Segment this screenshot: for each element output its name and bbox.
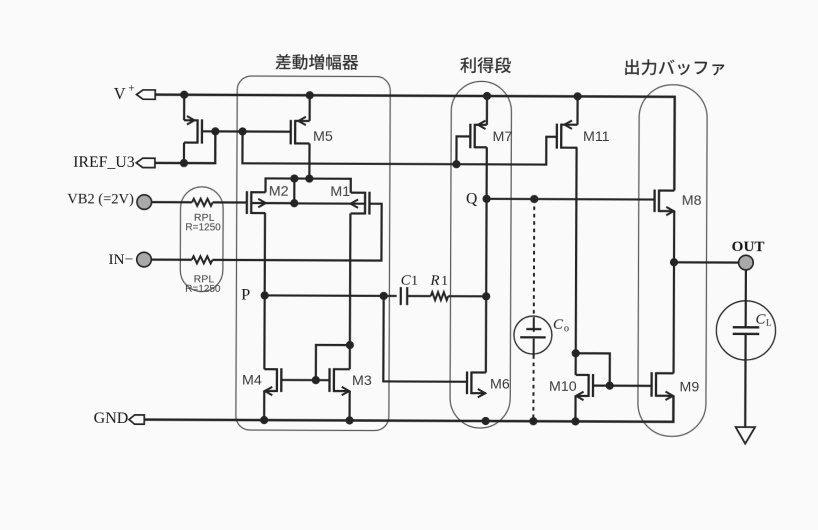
wire M7 gate route <box>456 136 470 164</box>
node Q junction <box>482 195 490 203</box>
junction node P / M6 gate / C1 <box>380 292 388 300</box>
label RPL/R=1250 (VB2) <box>185 213 221 234</box>
transistor M9 <box>652 372 674 400</box>
group box: output buffer stage <box>638 85 707 437</box>
wire OUT node line <box>674 261 738 263</box>
label C1 <box>401 272 418 288</box>
node P junction <box>261 291 269 299</box>
wire M10/M9 gate line <box>593 384 652 386</box>
svg-text:V: V <box>114 84 126 103</box>
wire Q vertical M7-M6 <box>485 147 488 372</box>
svg-text:GND: GND <box>94 410 129 427</box>
svg-text:M4: M4 <box>242 373 262 389</box>
label RPL/R=1250 (IN-) <box>185 274 221 294</box>
wire mirror gate node A to M5 <box>215 130 290 133</box>
transistor M7 <box>470 121 487 149</box>
junction M1-M2 bulk line <box>290 199 298 207</box>
svg-text:R: R <box>429 273 439 289</box>
wire R1 to Q vertical <box>448 295 486 297</box>
group box: differential amplifier stage <box>236 76 390 431</box>
wire node P to C1 <box>265 294 397 297</box>
svg-text:1: 1 <box>411 273 418 288</box>
label M6 <box>490 377 510 393</box>
svg-text:C: C <box>401 272 411 288</box>
svg-text:M9: M9 <box>679 379 699 395</box>
svg-text:IREF_U3: IREF_U3 <box>73 154 135 171</box>
terminal IN- <box>108 251 151 268</box>
junction V+ rail / M5 source <box>306 91 314 99</box>
wire M4 source drop <box>263 391 265 420</box>
wire M7 source drop <box>486 96 488 125</box>
svg-text:C: C <box>553 317 563 333</box>
svg-text:M10: M10 <box>549 379 577 395</box>
label M9 <box>679 379 699 395</box>
svg-text:Q: Q <box>466 190 477 207</box>
label CL <box>756 311 772 327</box>
terminal V+ <box>114 82 156 103</box>
label M3 <box>352 373 372 389</box>
junction GND / M3 source <box>345 416 353 424</box>
transistor M5 <box>291 117 310 145</box>
wire M5 source drop <box>309 95 311 121</box>
wire M3 source drop <box>348 391 350 420</box>
wire Mb drain drop <box>183 143 185 164</box>
wire M5 drain drop <box>308 143 310 178</box>
label: output buffer (kanji) <box>625 59 724 75</box>
svg-text:M11: M11 <box>583 129 610 145</box>
junction V+ rail / M11 source <box>573 92 581 100</box>
capacitor Co (node Q, dashed) <box>514 316 552 354</box>
svg-text:M5: M5 <box>313 129 333 145</box>
transistor M1 <box>294 191 369 214</box>
wire M8 source to OUT node <box>673 211 675 262</box>
junction M10-M9 gate line <box>606 382 614 390</box>
node Q label <box>466 190 477 207</box>
transistor M2 <box>247 191 294 214</box>
wire M4/M3 gate line <box>282 379 330 381</box>
svg-text:M6: M6 <box>490 377 510 393</box>
label M5 <box>313 129 333 145</box>
transistor Mb (IREF diode-connected PMOS) <box>184 116 202 144</box>
wire OUT node to M9 drain <box>672 262 675 373</box>
svg-text:M7: M7 <box>493 129 513 145</box>
wire RPL to M2 gate <box>213 201 247 203</box>
resistor RPL (IN-) <box>192 256 213 263</box>
junction source rail / M5 drain <box>305 174 313 182</box>
svg-text:R=1250: R=1250 <box>185 284 221 295</box>
wire bulk tie riser <box>293 179 295 204</box>
svg-text:1: 1 <box>441 273 448 288</box>
junction M3-M4 gate line <box>312 376 320 384</box>
svg-text:M1: M1 <box>330 184 350 200</box>
svg-text:M8: M8 <box>682 193 702 209</box>
wire M1/M2 common source rail <box>266 178 351 192</box>
wire GND rail to M9 source <box>144 394 674 422</box>
wire OUT terminal drop upper <box>745 270 747 328</box>
svg-text:P: P <box>241 285 250 304</box>
junction GND / Co return <box>529 417 537 425</box>
label M7 <box>493 129 513 145</box>
ground (CL return) <box>736 427 755 444</box>
svg-text:M3: M3 <box>352 373 372 389</box>
junction mirror gate rail / M7 gate <box>452 160 460 168</box>
label M1 <box>330 184 350 200</box>
wire IN- lead <box>152 259 192 261</box>
junction M10 drain / diode tie <box>572 349 580 357</box>
svg-text:L: L <box>766 317 772 327</box>
wire M11 source drop <box>576 96 578 124</box>
transistor M8 <box>655 190 675 216</box>
wire C1 to R1 <box>407 295 431 297</box>
junction IREF_U3 / Mb drain <box>180 159 188 167</box>
label: gain stage (kanji) <box>460 57 511 73</box>
capacitor CL (load) <box>716 301 775 360</box>
terminal OUT <box>731 238 764 270</box>
junction mirror gate rail / M5 gate <box>238 127 246 135</box>
junction V+ rail / M7 source <box>483 92 491 100</box>
group box: gain stage <box>450 81 512 428</box>
wire Mb source drop <box>183 95 185 120</box>
resistor R1 <box>431 292 448 300</box>
junction GND / M10 source <box>571 417 579 425</box>
junction GND / M4 source <box>260 416 268 424</box>
terminal VB2 <box>67 191 151 209</box>
wire CL bottom to ground <box>744 334 747 427</box>
transistor M11 <box>557 120 578 148</box>
wire M11 drain vertical <box>575 148 578 375</box>
wire VB2 lead <box>152 201 192 203</box>
svg-text:OUT: OUT <box>732 238 765 255</box>
node OUT junction <box>670 258 678 266</box>
wire M1 drain / M3 drain vertical <box>349 213 352 369</box>
node P label <box>241 285 250 304</box>
label M8 <box>682 193 702 209</box>
svg-text:M2: M2 <box>269 183 289 199</box>
resistor RPL (VB2) <box>192 199 213 206</box>
svg-text:IN−: IN− <box>108 251 133 268</box>
junction M3 drain / diode tie <box>346 341 354 349</box>
wire M10 diode tie <box>576 353 610 385</box>
wire M2 drain / node P / M4 drain vertical <box>263 213 266 369</box>
label R1 <box>429 273 448 289</box>
junction V+ rail / Mb source <box>180 91 188 99</box>
junction Mb gate-drain tie <box>211 127 219 135</box>
junction GND / M6 source <box>482 417 490 425</box>
label: differential amplifier (kanji) <box>275 54 358 70</box>
group box: RPL input resistors <box>180 187 223 292</box>
label Co <box>553 317 569 335</box>
transistor M4 <box>264 368 281 395</box>
transistor M6 <box>467 371 486 397</box>
wire IREF_U3 lead and riser <box>152 131 215 163</box>
wire V+ rail to M8 drain <box>155 95 675 191</box>
dashed wire node Q parasitic Co <box>532 199 535 421</box>
svg-text:C: C <box>756 311 766 327</box>
capacitor C1 plates <box>401 287 407 305</box>
svg-text:o: o <box>564 323 569 334</box>
svg-text:+: + <box>128 83 135 95</box>
junction source rail / bulk tie <box>290 174 298 182</box>
junction R1 / M6 drain <box>482 292 490 300</box>
wire node Q to M8 gate <box>487 198 655 201</box>
transistor M10 <box>576 374 594 400</box>
label M2 <box>269 183 289 199</box>
junction node Q / Co tap <box>530 195 538 203</box>
svg-text:R=1250: R=1250 <box>185 222 221 233</box>
svg-text:VB2 (=2V): VB2 (=2V) <box>67 191 134 207</box>
terminal GND <box>94 410 145 427</box>
terminal IREF_U3 <box>73 154 155 171</box>
wire node P to M6 gate <box>383 296 467 382</box>
wire Mb gate lead <box>202 130 215 132</box>
wire M3 diode tie <box>316 345 350 380</box>
wire M10 source drop <box>574 396 576 421</box>
label M4 <box>242 373 262 389</box>
transistor M3 <box>329 368 349 395</box>
wire RPL to M1 gate riser <box>212 203 381 261</box>
wire mirror gate rail to M7/M11 <box>242 132 557 165</box>
label M10 <box>549 379 577 395</box>
label M11 <box>583 129 610 145</box>
